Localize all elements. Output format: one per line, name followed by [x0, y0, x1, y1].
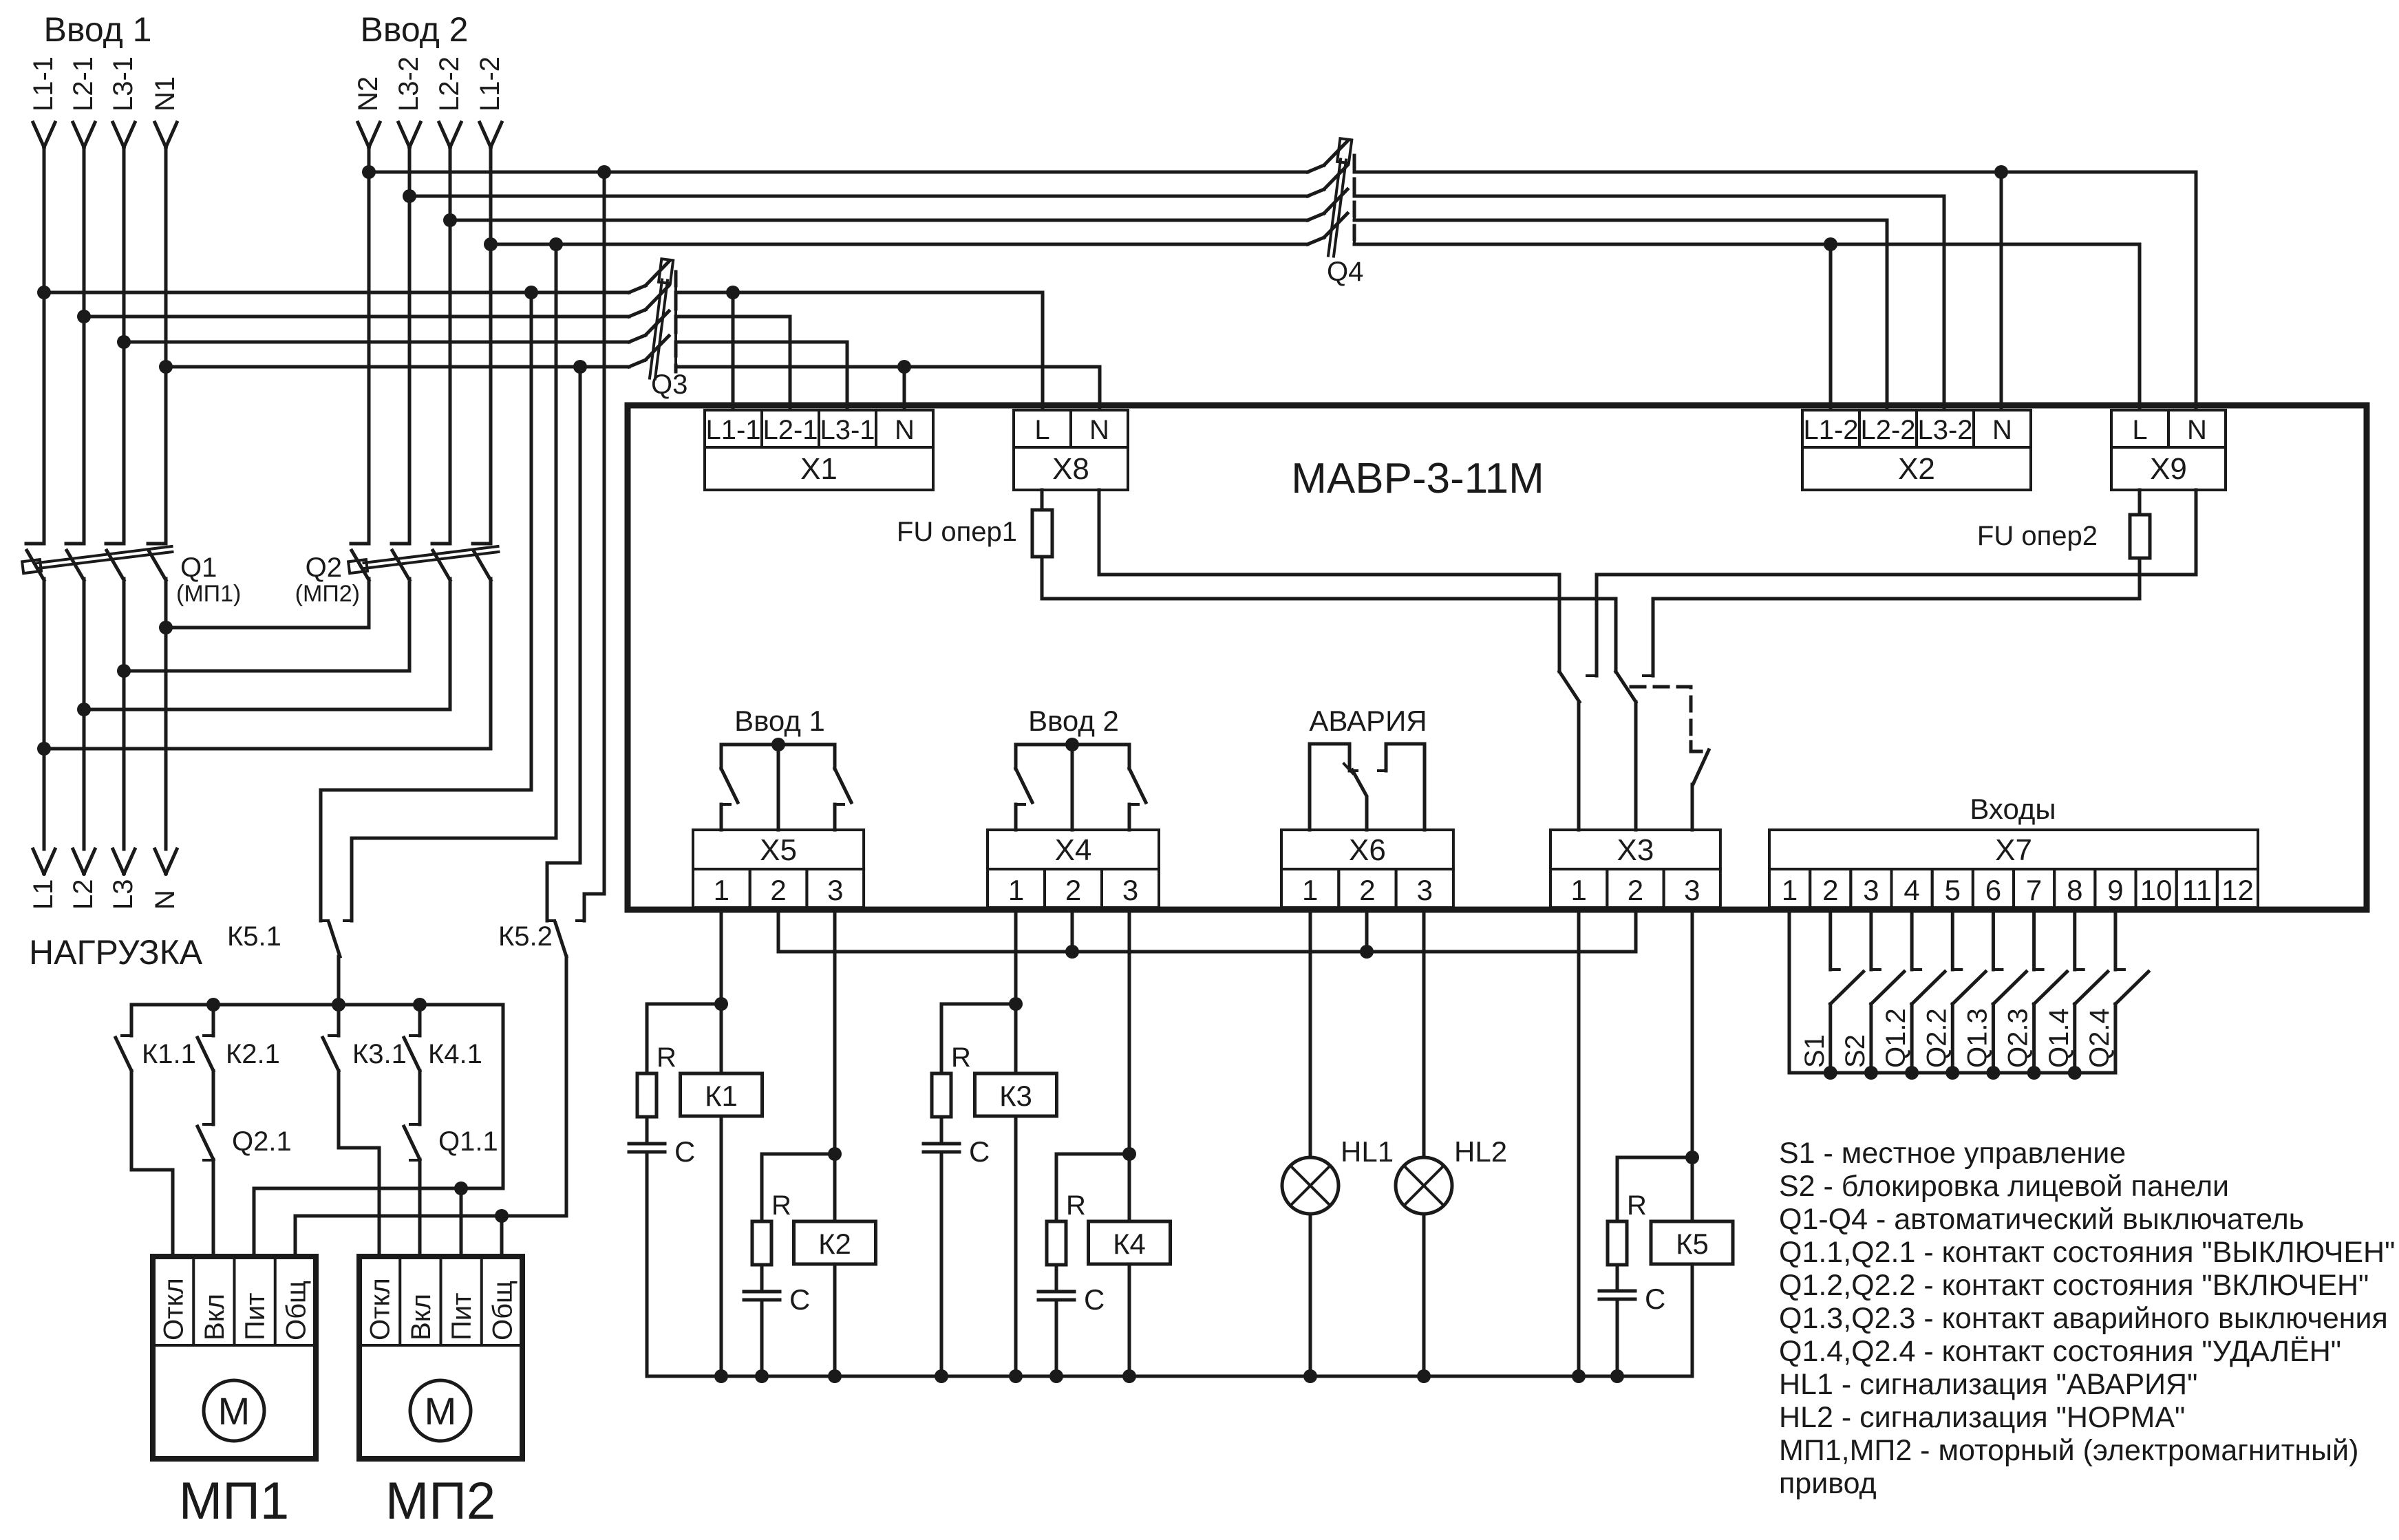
svg-text:4: 4 — [1904, 874, 1919, 906]
svg-text:Вкл: Вкл — [200, 1294, 230, 1340]
svg-text:L2: L2 — [68, 879, 98, 910]
svg-text:R: R — [1066, 1190, 1086, 1221]
svg-text:Q2.2: Q2.2 — [1921, 1008, 1952, 1068]
svg-text:Ввод 1: Ввод 1 — [44, 10, 152, 49]
svg-text:Q1.1,Q2.1 - контакт состояния: Q1.1,Q2.1 - контакт состояния "ВЫКЛЮЧЕН" — [1779, 1236, 2395, 1269]
svg-text:2: 2 — [1065, 874, 1081, 906]
svg-text:X7: X7 — [1995, 833, 2032, 867]
svg-text:X4: X4 — [1055, 833, 1092, 867]
svg-text:L2-2: L2-2 — [434, 56, 465, 111]
svg-text:2: 2 — [1822, 874, 1838, 906]
svg-text:L2-2: L2-2 — [1860, 415, 1915, 445]
svg-text:1: 1 — [714, 874, 729, 906]
svg-text:L2-1: L2-1 — [68, 56, 98, 111]
svg-text:Общ: Общ — [487, 1281, 518, 1340]
svg-text:3: 3 — [1122, 874, 1138, 906]
svg-text:L3-1: L3-1 — [108, 56, 138, 111]
svg-text:К1.1: К1.1 — [142, 1039, 196, 1069]
svg-text:6: 6 — [1985, 874, 2001, 906]
svg-text:АВАРИЯ: АВАРИЯ — [1309, 705, 1427, 737]
svg-text:R: R — [771, 1190, 791, 1221]
svg-text:2: 2 — [1628, 874, 1643, 906]
svg-text:1: 1 — [1008, 874, 1024, 906]
svg-text:HL1: HL1 — [1341, 1135, 1394, 1168]
svg-text:11: 11 — [2182, 874, 2212, 906]
svg-text:1: 1 — [1782, 874, 1798, 906]
svg-text:S2: S2 — [1840, 1034, 1870, 1068]
svg-text:N: N — [1089, 415, 1109, 445]
svg-text:1: 1 — [1570, 874, 1586, 906]
svg-text:К3.1: К3.1 — [352, 1039, 407, 1069]
svg-text:S1 - местное управление: S1 - местное управление — [1779, 1137, 2126, 1170]
svg-text:Q3: Q3 — [651, 370, 687, 400]
svg-text:Откл: Откл — [159, 1278, 189, 1340]
svg-text:Q2.4: Q2.4 — [2085, 1008, 2115, 1068]
svg-text:Q1.4: Q1.4 — [2044, 1008, 2074, 1068]
svg-text:X8: X8 — [1052, 452, 1089, 486]
svg-text:N1: N1 — [150, 76, 180, 111]
svg-text:2: 2 — [1359, 874, 1375, 906]
svg-text:К4.1: К4.1 — [428, 1039, 482, 1069]
svg-text:Q2.1: Q2.1 — [232, 1126, 292, 1157]
svg-text:Q1.2,Q2.2 - контакт состояния: Q1.2,Q2.2 - контакт состояния "ВКЛЮЧЕН" — [1779, 1269, 2369, 1302]
svg-text:3: 3 — [827, 874, 843, 906]
svg-text:Q1.2: Q1.2 — [1881, 1008, 1911, 1068]
svg-text:5: 5 — [1945, 874, 1961, 906]
svg-text:МП1,МП2 - моторный (электромаг: МП1,МП2 - моторный (электромагнитный) — [1779, 1434, 2358, 1467]
svg-text:М: М — [218, 1389, 250, 1433]
svg-text:3: 3 — [1684, 874, 1700, 906]
svg-text:2: 2 — [770, 874, 786, 906]
svg-text:Q1.3,Q2.3 - контакт аварийного: Q1.3,Q2.3 - контакт аварийного выключени… — [1779, 1302, 2388, 1335]
svg-text:К5: К5 — [1676, 1228, 1709, 1260]
svg-text:НАГРУЗКА: НАГРУЗКА — [29, 933, 203, 972]
svg-text:S2 - блокировка лицевой панели: S2 - блокировка лицевой панели — [1779, 1170, 2229, 1203]
svg-text:FU опер1: FU опер1 — [897, 517, 1017, 547]
svg-text:Q1.3: Q1.3 — [1962, 1008, 1992, 1068]
svg-text:X3: X3 — [1617, 833, 1654, 867]
svg-text:Общ: Общ — [281, 1281, 311, 1340]
svg-text:N: N — [150, 890, 180, 910]
svg-text:L1-1: L1-1 — [705, 415, 760, 445]
svg-text:C: C — [674, 1135, 695, 1168]
svg-text:C: C — [1084, 1283, 1105, 1316]
svg-text:Q1.1: Q1.1 — [438, 1126, 498, 1157]
svg-text:К3: К3 — [999, 1080, 1032, 1112]
svg-text:8: 8 — [2067, 874, 2082, 906]
svg-text:Q1: Q1 — [180, 553, 217, 583]
svg-text:Q1-Q4 - автоматический выключа: Q1-Q4 - автоматический выключатель — [1779, 1203, 2304, 1236]
svg-text:L3-2: L3-2 — [394, 56, 424, 111]
svg-text:(МП2): (МП2) — [295, 581, 360, 607]
svg-text:МАВР-3-11М: МАВР-3-11М — [1291, 455, 1544, 502]
svg-text:Q2: Q2 — [306, 553, 342, 583]
svg-text:12: 12 — [2221, 874, 2254, 906]
svg-text:HL2: HL2 — [1454, 1135, 1507, 1168]
svg-text:R: R — [657, 1042, 676, 1073]
svg-text:L1: L1 — [28, 879, 58, 910]
svg-text:L1-2: L1-2 — [1803, 415, 1858, 445]
svg-text:МП2: МП2 — [385, 1472, 495, 1530]
svg-text:К5.2: К5.2 — [498, 921, 553, 952]
svg-text:10: 10 — [2140, 874, 2173, 906]
svg-text:L3-1: L3-1 — [820, 415, 875, 445]
svg-text:L2-1: L2-1 — [763, 415, 818, 445]
svg-text:К5.1: К5.1 — [227, 921, 281, 952]
svg-text:N2: N2 — [353, 76, 383, 111]
svg-text:C: C — [789, 1283, 810, 1316]
svg-text:N: N — [895, 415, 915, 445]
svg-text:N: N — [1992, 415, 2012, 445]
svg-text:L1-1: L1-1 — [28, 56, 58, 111]
svg-text:М: М — [425, 1389, 457, 1433]
svg-text:К2.1: К2.1 — [226, 1039, 280, 1069]
svg-text:Ввод 1: Ввод 1 — [734, 705, 825, 737]
svg-text:К1: К1 — [705, 1080, 738, 1112]
svg-text:L1-2: L1-2 — [475, 56, 505, 111]
svg-text:Q2.3: Q2.3 — [2003, 1008, 2034, 1068]
svg-text:L: L — [2132, 415, 2147, 445]
svg-text:FU опер2: FU опер2 — [1977, 521, 2098, 551]
svg-text:1: 1 — [1302, 874, 1318, 906]
svg-text:Ввод 2: Ввод 2 — [1028, 705, 1119, 737]
svg-text:Ввод 2: Ввод 2 — [361, 10, 469, 49]
svg-text:7: 7 — [2026, 874, 2042, 906]
svg-text:L: L — [1034, 415, 1049, 445]
svg-text:X9: X9 — [2150, 452, 2187, 486]
svg-text:3: 3 — [1417, 874, 1433, 906]
svg-text:Q1.4,Q2.4 - контакт состояния: Q1.4,Q2.4 - контакт состояния "УДАЛЁН" — [1779, 1335, 2341, 1368]
svg-text:Пит: Пит — [240, 1293, 270, 1340]
svg-text:L3-2: L3-2 — [1917, 415, 1972, 445]
svg-text:9: 9 — [2107, 874, 2123, 906]
svg-text:(МП1): (МП1) — [176, 581, 241, 607]
svg-text:R: R — [1627, 1190, 1647, 1221]
svg-text:R: R — [951, 1042, 971, 1073]
svg-text:X2: X2 — [1898, 452, 1935, 486]
svg-text:S1: S1 — [1800, 1034, 1830, 1068]
svg-text:L3: L3 — [108, 879, 138, 910]
svg-text:N: N — [2187, 415, 2207, 445]
svg-text:X1: X1 — [800, 452, 838, 486]
svg-text:К2: К2 — [818, 1228, 851, 1260]
svg-text:Входы: Входы — [1970, 793, 2056, 825]
svg-text:C: C — [1645, 1283, 1665, 1315]
svg-text:3: 3 — [1863, 874, 1879, 906]
svg-text:HL2 - сигнализация "НОРМА": HL2 - сигнализация "НОРМА" — [1779, 1401, 2185, 1434]
svg-text:X5: X5 — [760, 833, 797, 867]
svg-text:C: C — [969, 1135, 990, 1168]
svg-text:Пит: Пит — [447, 1293, 477, 1340]
svg-text:X6: X6 — [1349, 833, 1386, 867]
svg-text:МП1: МП1 — [179, 1472, 289, 1530]
svg-text:Q4: Q4 — [1327, 257, 1363, 287]
svg-text:привод: привод — [1779, 1467, 1877, 1500]
svg-text:HL1 - сигнализация "АВАРИЯ": HL1 - сигнализация "АВАРИЯ" — [1779, 1368, 2197, 1401]
svg-text:Откл: Откл — [365, 1278, 396, 1340]
svg-text:Вкл: Вкл — [406, 1294, 436, 1340]
svg-text:К4: К4 — [1113, 1228, 1146, 1260]
